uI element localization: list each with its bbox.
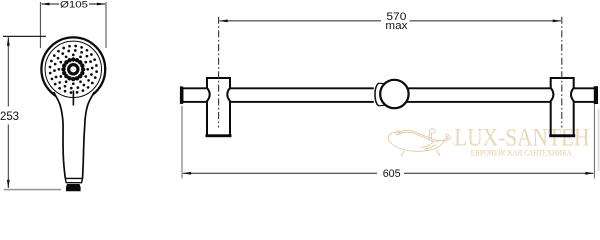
svg-text:Ø105: Ø105 [60, 0, 88, 9]
svg-text:LUX-SANTEH: LUX-SANTEH [454, 122, 589, 151]
svg-text:605: 605 [383, 168, 401, 180]
svg-text:ЕВРОПЕЙСКАЯ САНТЕХНИКА: ЕВРОПЕЙСКАЯ САНТЕХНИКА [471, 149, 572, 158]
svg-text:253: 253 [0, 109, 19, 123]
svg-text:max: max [385, 20, 408, 32]
